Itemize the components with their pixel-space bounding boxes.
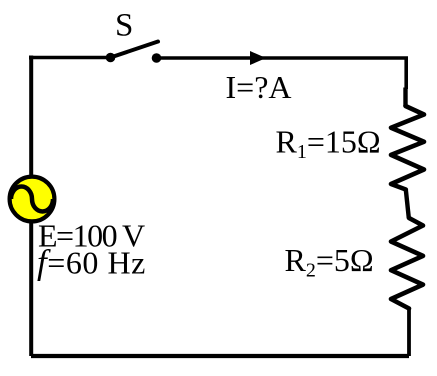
svg-text:R1=15Ω: R1=15Ω — [276, 124, 381, 164]
current arrow — [250, 51, 266, 65]
wire: left vertical — [29, 58, 31, 357]
wire: R2 to bottom-right corner — [407, 309, 411, 357]
resistor R2 zigzag — [391, 218, 423, 309]
switch S — [106, 42, 162, 63]
svg-text:R2=5Ω: R2=5Ω — [285, 242, 374, 282]
wire: top-left horizontal segment — [29, 56, 110, 60]
AC source V1 — [10, 177, 55, 222]
resistor R1 zigzag — [391, 106, 424, 190]
wire: jog segment above R1 — [403, 88, 407, 107]
wire: bottom horizontal — [31, 354, 409, 358]
svg-text:S: S — [115, 8, 133, 44]
svg-text:f=60 Hz: f=60 Hz — [37, 243, 146, 282]
wire: between R1 and R2 — [406, 190, 409, 219]
wire: switch to top-right corner, then down — [157, 58, 407, 89]
svg-text:I=?A: I=?A — [226, 69, 292, 105]
